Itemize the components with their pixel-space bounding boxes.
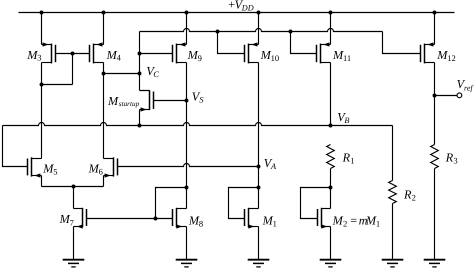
transistor M7 xyxy=(74,208,87,229)
wire VC line to M10 gate xyxy=(218,32,245,54)
wire VB to M5 gate xyxy=(3,126,28,167)
label M3 xyxy=(26,48,41,63)
wire M1 source to ground xyxy=(258,227,260,260)
svg-text:=: = xyxy=(350,213,357,227)
wire R2 bottom to ground xyxy=(392,204,394,260)
junction dot on M3 drain xyxy=(40,83,44,87)
ground under M8 xyxy=(176,260,198,267)
label M4 xyxy=(106,48,122,63)
junction dot M9 gate tap xyxy=(138,52,142,56)
svg-text:M: M xyxy=(332,213,344,227)
svg-text:2: 2 xyxy=(412,193,416,203)
svg-text:DD: DD xyxy=(241,3,254,12)
+VDD power rail xyxy=(19,12,455,14)
wire M6 source to tail xyxy=(103,176,105,187)
junction dot Mstartup source on VB xyxy=(138,124,142,128)
svg-text:3: 3 xyxy=(453,156,457,166)
wire M7 source to ground xyxy=(73,227,75,260)
wire VC line to M11 gate xyxy=(291,32,317,54)
svg-text:2: 2 xyxy=(343,219,347,229)
wire M3 drain down to M5 drain xyxy=(41,63,43,159)
wire M12 drain to Vref xyxy=(434,63,436,96)
label Mstartup xyxy=(107,94,140,108)
label +VDD xyxy=(228,0,254,12)
wire M7-M8 gate line xyxy=(87,218,173,220)
transistor Mstartup xyxy=(140,90,154,111)
node Vref junction xyxy=(433,94,437,98)
svg-text:ref: ref xyxy=(464,84,474,93)
wire VB right corner to R2 xyxy=(392,126,394,181)
ground under R2 xyxy=(382,260,404,267)
svg-text:A: A xyxy=(270,162,277,171)
label VC xyxy=(146,64,159,79)
wire VC vertical xyxy=(139,32,141,91)
resistor R1 xyxy=(327,145,335,169)
label M11 xyxy=(332,48,351,63)
wire M2 source to ground xyxy=(330,227,332,260)
transistor M1 xyxy=(245,208,259,229)
ground under M1 xyxy=(248,260,270,267)
wire VC distribution line xyxy=(140,29,383,32)
svg-text:M: M xyxy=(107,94,119,108)
wire M1 diode connection xyxy=(229,188,259,219)
wire M2 diode connection xyxy=(301,188,331,219)
transistor M11 xyxy=(317,42,331,63)
wire Mstartup gate to VS xyxy=(154,100,187,102)
svg-text:5: 5 xyxy=(53,167,57,177)
svg-text:1: 1 xyxy=(273,219,277,229)
junction dot tail xyxy=(72,185,76,189)
wire gate node down xyxy=(72,54,74,85)
terminal Vref xyxy=(457,93,462,98)
junction dot M4 drain xyxy=(102,72,106,76)
wire Vref to R3 xyxy=(434,96,436,145)
wire VB line xyxy=(3,123,393,126)
transistor M8 xyxy=(173,208,187,229)
rail junction dot M12 xyxy=(433,11,437,15)
label VA xyxy=(264,156,277,171)
wire VDD to M12 source xyxy=(434,13,436,45)
label M10 xyxy=(260,48,280,63)
svg-text:6: 6 xyxy=(99,167,103,177)
rail junction dot M4 xyxy=(102,11,106,15)
node VA xyxy=(257,165,261,169)
svg-text:S: S xyxy=(199,96,204,105)
svg-text:12: 12 xyxy=(447,53,456,63)
transistor M4 xyxy=(90,42,104,63)
wire Vref stub xyxy=(435,95,457,97)
wire M10 drain to M1 drain xyxy=(258,63,260,209)
label Vref xyxy=(457,77,474,93)
wire VDD to M9 source xyxy=(186,13,188,45)
transistor M5 xyxy=(28,157,42,177)
wire M8 diode connection xyxy=(156,188,187,219)
label M8 xyxy=(188,213,203,228)
svg-text:3: 3 xyxy=(37,53,41,63)
label M2 = mM1 xyxy=(332,213,381,228)
junction dot M1 drain diode tap xyxy=(257,186,261,190)
wire M9 drain to M8 drain xyxy=(186,63,188,209)
junction dot M8 drain diode tap xyxy=(185,186,189,190)
junction dot VC line M11 gate xyxy=(289,30,293,34)
label VB xyxy=(337,110,349,125)
label M9 xyxy=(187,48,202,63)
wire VC to Mstartup drain xyxy=(140,90,150,92)
wire Mstartup source to VB xyxy=(139,110,141,126)
svg-text:10: 10 xyxy=(271,53,280,63)
svg-text:C: C xyxy=(153,70,159,79)
transistor M12 xyxy=(421,42,435,63)
wire VC line corner to M12 gate xyxy=(383,32,421,54)
wire VA line M6 gate to M1 drain column xyxy=(118,164,259,167)
wire tail to M7 drain xyxy=(73,187,75,209)
node VB xyxy=(329,124,333,128)
resistor R2 xyxy=(389,181,397,204)
label M5 xyxy=(42,161,57,176)
transistor M6 xyxy=(104,157,118,177)
wire M11 drain to VB xyxy=(330,63,332,126)
wire M4 drain down to M6 drain xyxy=(103,74,105,159)
wire VDD to M10 source xyxy=(258,13,260,45)
svg-text:8: 8 xyxy=(199,219,203,229)
label VS xyxy=(192,89,205,104)
wire M3 gate to M4 gate xyxy=(56,53,90,55)
label M12 xyxy=(436,48,456,63)
wire M9 gate xyxy=(140,53,173,55)
junction dot R1-M2 drain xyxy=(329,186,333,190)
wire R3 bottom to ground xyxy=(434,169,436,260)
label R1 xyxy=(342,150,355,165)
svg-text:startup: startup xyxy=(119,100,140,108)
junction dot M3-M4 gate node xyxy=(71,52,75,56)
ground under M7 xyxy=(63,260,85,267)
wire M4 drain to VC node xyxy=(104,73,140,75)
svg-text:9: 9 xyxy=(198,53,202,63)
transistor M9 xyxy=(173,42,187,63)
transistor M3 xyxy=(42,42,56,63)
junction dot M8 gate-drain xyxy=(154,217,158,221)
rail junction dot M10 xyxy=(257,11,261,15)
wire M8 source to ground xyxy=(186,227,188,260)
svg-text:7: 7 xyxy=(70,217,74,227)
svg-text:B: B xyxy=(344,116,349,125)
node VS xyxy=(185,99,189,103)
wire M5 source to tail xyxy=(41,176,43,187)
wire R1 bottom to M2 drain xyxy=(330,169,332,209)
svg-text:1: 1 xyxy=(376,219,380,229)
rail junction dot M11 xyxy=(329,11,333,15)
wire VDD to M11 source xyxy=(330,13,332,45)
resistor R3 xyxy=(431,145,439,169)
wire VDD to M4 source xyxy=(103,13,105,45)
transistor M2 xyxy=(318,208,331,229)
transistor M10 xyxy=(245,42,259,63)
wire gate node to M3 drain xyxy=(42,84,73,86)
node VC xyxy=(138,72,142,76)
wire M4 drain down xyxy=(103,63,105,74)
label R3 xyxy=(445,150,458,165)
label M7 xyxy=(59,212,74,227)
wire VDD to M3 source xyxy=(41,13,43,45)
wire tail line xyxy=(42,186,104,188)
ground under M2 xyxy=(320,260,342,267)
rail junction dot M9 xyxy=(185,11,189,15)
svg-text:4: 4 xyxy=(117,53,122,63)
label M6 xyxy=(88,161,103,176)
svg-text:1: 1 xyxy=(350,156,354,166)
label M1 xyxy=(262,213,277,228)
label R2 xyxy=(403,188,416,203)
ground under R3 xyxy=(424,260,446,267)
junction dot VC line M10 gate xyxy=(216,30,220,34)
svg-text:11: 11 xyxy=(343,53,351,63)
rail junction dot M3 xyxy=(40,11,44,15)
